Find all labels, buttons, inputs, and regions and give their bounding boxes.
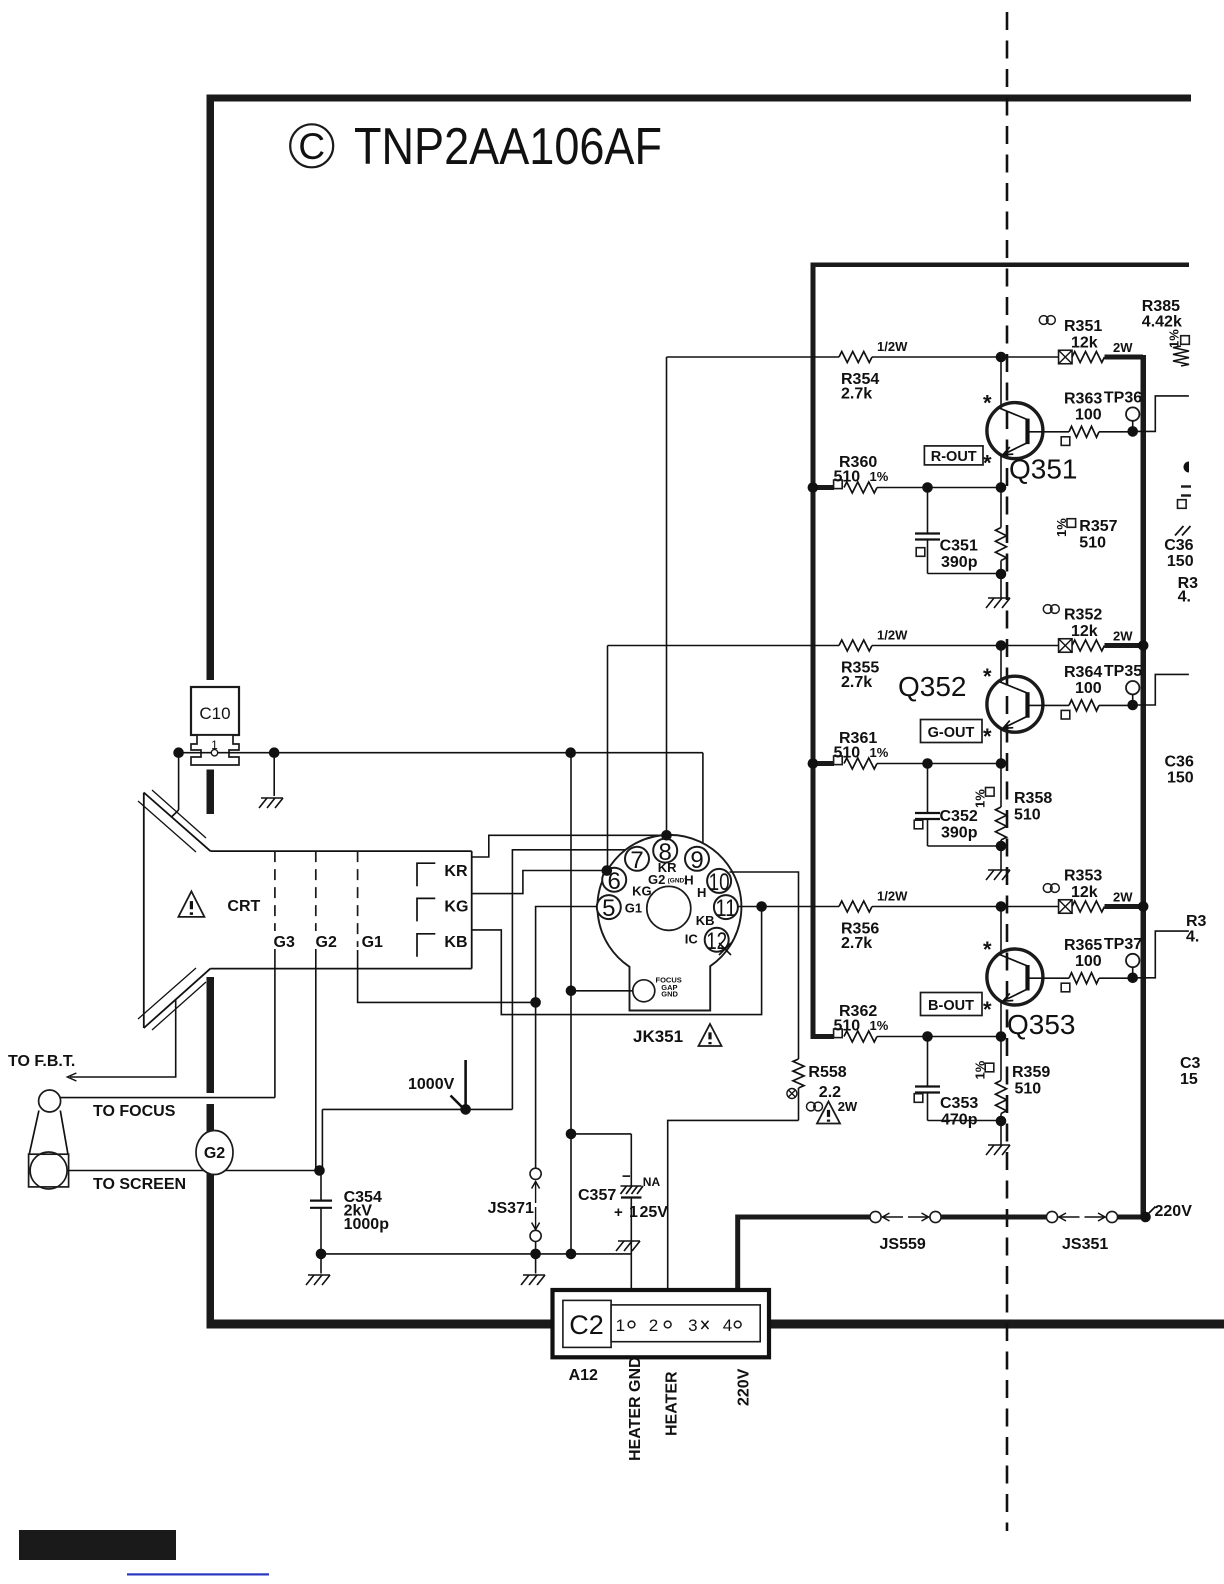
node R359 gnd — [996, 1116, 1007, 1127]
thick lead R352 to bus — [1105, 643, 1144, 648]
symbol nonflammable R558 — [807, 1102, 816, 1111]
CRT warning triangle — [178, 891, 204, 917]
node socket pin 8 (KR) — [661, 830, 672, 841]
svg-text:510: 510 — [1014, 807, 1041, 824]
wire base row — [1029, 431, 1070, 433]
svg-text:R351: R351 — [1064, 318, 1102, 335]
transistor Q353 collector lead — [1000, 907, 1002, 956]
node bus-R360 — [808, 482, 819, 493]
1000V arrow marker — [464, 1060, 467, 1106]
svg-text:3: 3 — [688, 1316, 697, 1335]
node fb-emitter — [996, 482, 1007, 493]
node socket pin 6 (KG) — [602, 865, 613, 876]
svg-text:G2: G2 — [204, 1145, 225, 1162]
svg-text:A12: A12 — [569, 1367, 598, 1384]
svg-text:10: 10 — [709, 869, 730, 896]
node heater-gnd column — [566, 1249, 577, 1260]
component square C353 — [914, 1094, 923, 1103]
thick stub bus to R361 — [811, 761, 835, 766]
svg-text:*: * — [983, 664, 992, 689]
capacitor plates — [915, 812, 940, 814]
socket pin 5 — [597, 895, 621, 919]
svg-text:100: 100 — [1075, 680, 1102, 697]
wire input row R354 — [667, 356, 840, 358]
thick lead R351 to bus — [1105, 355, 1144, 360]
svg-text:C10: C10 — [199, 704, 230, 723]
svg-text:G1: G1 — [362, 934, 383, 951]
svg-text:HEATER: HEATER — [664, 1371, 681, 1436]
partial resistor R385 vertical — [1173, 346, 1189, 366]
svg-text:2.7k: 2.7k — [841, 674, 872, 691]
label box B-OUT — [921, 993, 983, 1016]
test point TP36 — [1126, 407, 1139, 420]
svg-text:HEATER GND: HEATER GND — [627, 1356, 644, 1461]
label box G-OUT — [921, 720, 983, 743]
svg-text:R363: R363 — [1064, 391, 1102, 408]
capacitor C354 — [320, 1171, 322, 1201]
node bus-R353 join — [1138, 901, 1149, 912]
svg-text:510: 510 — [834, 1018, 861, 1035]
ground (C10) — [261, 797, 283, 799]
wire 1000V junction row — [322, 1108, 512, 1110]
capacitor plates — [915, 532, 940, 534]
ground (R357) — [1000, 574, 1002, 598]
connector C2 label box — [563, 1300, 611, 1347]
socket pin 6 — [602, 868, 626, 892]
resistor R353 crossed-box (fusible) — [1059, 900, 1073, 914]
connector C10 plug body — [191, 735, 239, 765]
grid G2 dashed electrode line — [315, 851, 317, 931]
svg-text:TO FOCUS: TO FOCUS — [93, 1103, 176, 1120]
svg-text:1: 1 — [616, 1316, 625, 1335]
ground (JS371) — [523, 1274, 545, 1276]
svg-text:1%: 1% — [870, 745, 889, 760]
socket pin 9 — [685, 847, 709, 871]
symbol nonflammable R353 — [1043, 884, 1052, 893]
wire feedback row — [834, 1036, 839, 1038]
svg-text:GND: GND — [661, 990, 678, 999]
svg-text:IC: IC — [685, 931, 699, 946]
ground (C357) — [618, 1240, 640, 1242]
svg-text:220V: 220V — [1155, 1203, 1193, 1220]
resistor R352 crossed-box (fusible) — [1059, 639, 1073, 653]
blue underline — [127, 1573, 269, 1575]
transistor Q351 emitter lead — [1000, 455, 1002, 488]
output-stage sub-circuit boundary box — [811, 263, 1190, 268]
svg-text:C36: C36 — [1164, 537, 1193, 554]
thick 220V bus (right) — [1141, 355, 1147, 1219]
svg-text:2.7k: 2.7k — [841, 935, 872, 952]
wire anode to FBT — [70, 999, 176, 1077]
wire to C357 — [571, 1133, 631, 1135]
CRT bell left face — [143, 793, 145, 1029]
test point TP35 — [1126, 681, 1139, 694]
node R358 gnd — [996, 841, 1007, 852]
node fb-emitter — [996, 1031, 1007, 1042]
svg-text:KG: KG — [632, 884, 652, 899]
wire pin5 G1 to JS371 — [536, 907, 597, 1169]
node C354 gnd — [316, 1249, 327, 1260]
node screen/G2/C354 junction — [314, 1165, 325, 1176]
svg-text:G3: G3 — [274, 934, 295, 951]
svg-text:5: 5 — [602, 895, 615, 922]
svg-text:150: 150 — [1167, 770, 1194, 787]
resistor R360 — [844, 482, 877, 493]
thick corner from left bus to R362 — [811, 1034, 835, 1039]
svg-text:510: 510 — [834, 469, 861, 486]
svg-text:470p: 470p — [941, 1112, 978, 1129]
ground (R358) — [1000, 846, 1002, 870]
svg-text:C357: C357 — [578, 1187, 616, 1204]
svg-text:C36: C36 — [1165, 754, 1194, 771]
svg-text:R-OUT: R-OUT — [931, 449, 977, 465]
CRT neck bottom edge — [210, 968, 471, 970]
jumper JS351 — [1046, 1211, 1057, 1222]
svg-text:2W: 2W — [838, 1099, 858, 1114]
svg-text:C353: C353 — [940, 1095, 978, 1112]
svg-text:H: H — [697, 885, 706, 900]
svg-text:C3: C3 — [1180, 1055, 1201, 1072]
svg-text:C352: C352 — [940, 808, 978, 825]
resistor R363 100 — [1069, 426, 1099, 437]
connector C2 outer box — [553, 1290, 770, 1357]
schematic page border (left), segments interrupted by C10 / CRT / wires — [207, 95, 215, 681]
svg-text:15: 15 — [1180, 1071, 1198, 1088]
wire base row — [1029, 977, 1070, 979]
node fb-cap — [922, 1031, 933, 1042]
wire test point to page edge — [1133, 396, 1189, 432]
svg-text:12k: 12k — [1071, 884, 1098, 901]
schematic page border (bottom) — [207, 1320, 553, 1329]
node input-collector — [996, 640, 1007, 651]
connector C2 pin area box — [611, 1305, 760, 1342]
jumper JS559 — [870, 1211, 881, 1222]
ground (C354) — [320, 1254, 322, 1274]
CRT bell bottom slant — [144, 969, 211, 1028]
svg-text:220V: 220V — [736, 1368, 753, 1406]
svg-text:510: 510 — [1079, 535, 1106, 552]
svg-text:TP37: TP37 — [1104, 936, 1142, 953]
node fb-cap — [922, 758, 933, 769]
svg-text:2W: 2W — [1113, 629, 1133, 644]
socket focus pin — [633, 980, 655, 1002]
pin 12 not-connected cross — [719, 943, 731, 955]
node socket pin 11 (KB) — [756, 901, 767, 912]
wire pin10 heater to R558 — [730, 872, 799, 1059]
wire KR electrode to socket pin 8 — [472, 835, 667, 857]
capacitor lead — [927, 488, 929, 534]
svg-text:*: * — [983, 724, 992, 749]
svg-text:Q352: Q352 — [898, 671, 967, 702]
svg-text:C2: C2 — [569, 1310, 604, 1340]
symbol nonflammable R351 — [1039, 316, 1048, 325]
ellipse G2 label on screen wire — [196, 1131, 233, 1175]
svg-text:11: 11 — [715, 895, 736, 922]
CRT bell top slant — [144, 793, 211, 852]
transistor Q351 — [987, 403, 1043, 459]
black redaction rectangle — [19, 1530, 176, 1560]
component square C351 — [916, 548, 925, 557]
svg-text:100: 100 — [1075, 953, 1102, 970]
transistor Q353 — [987, 949, 1043, 1005]
svg-text:TNP2AA106AF: TNP2AA106AF — [354, 118, 662, 176]
node bus-R352 join — [1138, 640, 1149, 651]
thick lead down to C2 pin 4 — [735, 1215, 740, 1320]
schematic page border (top) — [207, 95, 1192, 102]
svg-text:150: 150 — [1167, 553, 1194, 570]
resistor R352 12k — [1072, 640, 1105, 651]
thick 220V rail (bottom) — [737, 1215, 873, 1220]
node JS371 gnd — [530, 1249, 541, 1260]
socket pin 8 — [653, 839, 677, 863]
node 220V bus corner — [1140, 1212, 1151, 1223]
svg-text:Q351: Q351 — [1009, 454, 1078, 485]
svg-text:−: − — [622, 1168, 631, 1185]
svg-text:4.: 4. — [1178, 589, 1191, 606]
socket pin 12 — [705, 928, 729, 952]
wire pin6 up to R355 net — [607, 646, 609, 871]
svg-text:R353: R353 — [1064, 868, 1102, 885]
wire focus pin to ground line — [571, 990, 633, 992]
svg-text:TP36: TP36 — [1104, 390, 1142, 407]
component square R365 — [1061, 983, 1070, 992]
node C10 gnd stub — [269, 747, 280, 758]
svg-text:4.42k: 4.42k — [1142, 313, 1182, 330]
svg-text:12k: 12k — [1071, 335, 1098, 352]
svg-text:510: 510 — [834, 745, 861, 762]
svg-text:*: * — [983, 997, 992, 1022]
grid G3 dashed electrode line — [274, 851, 276, 931]
node fb-emitter — [996, 758, 1007, 769]
cathode KR electrode — [417, 863, 435, 886]
svg-text:1%: 1% — [870, 469, 889, 484]
CRT bell bottom slant hatching — [138, 968, 196, 1019]
resistor R351 12k — [1072, 352, 1105, 363]
wire test point to page edge — [1133, 931, 1189, 978]
test point TP37 — [1126, 954, 1139, 967]
svg-text:9: 9 — [690, 847, 703, 874]
svg-text:R558: R558 — [808, 1064, 846, 1081]
grid G1 dashed electrode line — [357, 851, 359, 947]
wire test point to page edge — [1133, 674, 1189, 705]
symbol nonflammable R352 — [1043, 605, 1052, 614]
ground (R359) — [1000, 1121, 1002, 1145]
node input-collector — [996, 901, 1007, 912]
copyright symbol — [290, 124, 333, 167]
svg-text:G1: G1 — [625, 901, 642, 916]
component square C352 — [914, 820, 923, 829]
jumper JS371 — [530, 1168, 541, 1179]
capacitor lead — [927, 1037, 929, 1087]
svg-text:R352: R352 — [1064, 607, 1102, 624]
wire down to socket shell — [702, 753, 704, 848]
svg-text:2W: 2W — [1113, 340, 1133, 355]
svg-text:JS371: JS371 — [488, 1200, 534, 1217]
svg-text:1000p: 1000p — [344, 1216, 390, 1233]
node bus-R361 — [808, 758, 819, 769]
node input-collector — [996, 352, 1007, 363]
svg-text:510: 510 — [1015, 1081, 1042, 1098]
component square R362 — [834, 1029, 843, 1038]
node anode-C10 — [173, 747, 184, 758]
resistor R558 2.2 2W — [793, 1059, 804, 1088]
svg-text:B-OUT: B-OUT — [928, 998, 974, 1014]
capacitor lead — [927, 764, 929, 814]
ground line x=571 down to heater gnd net — [570, 753, 572, 1254]
resistor R364 100 — [1069, 700, 1099, 711]
wire C10 ground bus — [179, 752, 212, 754]
svg-text:1/2W: 1/2W — [877, 889, 908, 904]
svg-text:1%: 1% — [1167, 329, 1182, 348]
symbol fusible R558 — [787, 1089, 797, 1099]
anode lead from C10 into bell — [178, 753, 180, 810]
CRT bell top slant hatching — [138, 801, 196, 852]
svg-text:390p: 390p — [941, 554, 978, 571]
wire ground row y=1254 — [321, 1253, 631, 1255]
wire input row R356 — [738, 906, 839, 908]
svg-text:TO SCREEN: TO SCREEN — [93, 1176, 186, 1193]
svg-text:R3: R3 — [1186, 913, 1207, 930]
svg-text:TO F.B.T.: TO F.B.T. — [8, 1053, 75, 1070]
220V tick — [1146, 1207, 1156, 1217]
resistor R351 crossed-box (fusible) — [1059, 350, 1073, 364]
wire G2 socket pin7 to screen net — [512, 850, 646, 1110]
svg-text:KG: KG — [444, 899, 468, 916]
CRT neck top edge — [210, 850, 471, 852]
svg-text:R358: R358 — [1014, 790, 1052, 807]
CRT neck right edge — [471, 851, 473, 969]
wire pin8 up to R354 — [666, 357, 668, 835]
capacitor plates — [915, 1085, 940, 1087]
resistor R353 12k — [1072, 901, 1105, 912]
svg-text:JK351: JK351 — [633, 1027, 683, 1046]
svg-text:100: 100 — [1075, 407, 1102, 424]
CRT socket JK351 outline — [597, 835, 741, 1011]
svg-text:1%: 1% — [870, 1018, 889, 1033]
wire R558 to C2 pin2 — [668, 1120, 799, 1322]
svg-text:TP35: TP35 — [1104, 663, 1142, 680]
svg-text:KB: KB — [444, 934, 467, 951]
socket pin 11 — [714, 895, 738, 919]
node R357 gnd — [996, 569, 1007, 580]
svg-text:12k: 12k — [1071, 623, 1098, 640]
svg-text:1/2W: 1/2W — [877, 628, 908, 643]
component square R361 — [834, 756, 843, 765]
svg-text:7: 7 — [630, 847, 643, 874]
cathode KG electrode — [417, 898, 435, 921]
svg-text:R365: R365 — [1064, 937, 1102, 954]
partial half-disc symbol — [1184, 462, 1190, 473]
resistor R354 2.7k — [839, 352, 872, 363]
svg-text:Q353: Q353 — [1007, 1009, 1076, 1040]
svg-text:JS351: JS351 — [1062, 1236, 1108, 1253]
socket pin 10 — [707, 869, 731, 893]
wire feedback row — [834, 763, 839, 765]
svg-text:390p: 390p — [941, 825, 978, 842]
wire TO SCREEN — [67, 1170, 316, 1172]
warning triangle at JK351 — [699, 1024, 722, 1046]
svg-text:G2: G2 — [316, 934, 337, 951]
svg-text:4: 4 — [723, 1316, 732, 1335]
svg-text:2.7k: 2.7k — [841, 386, 872, 403]
svg-text:*: * — [983, 937, 992, 962]
svg-text:1/2W: 1/2W — [877, 339, 908, 354]
svg-text:1: 1 — [629, 1204, 638, 1221]
svg-text:CRT: CRT — [227, 898, 260, 915]
label box R-OUT — [924, 446, 983, 465]
transistor Q352 — [987, 676, 1043, 732]
socket pin 7 — [625, 847, 649, 871]
svg-text:KB: KB — [696, 913, 715, 928]
resistor R355 2.7k — [839, 640, 872, 651]
arrow to F.B.T. — [67, 1073, 76, 1081]
thick lead R353 to bus — [1105, 904, 1144, 909]
wire TO FOCUS — [61, 1097, 275, 1099]
CRT socket center hole — [647, 886, 691, 930]
wire KB electrode to socket pin 11 — [472, 907, 762, 1015]
node C10 gnd line to focus net — [565, 747, 576, 758]
FBT focus/screen divider symbol — [39, 1090, 61, 1112]
svg-text:KR: KR — [444, 863, 468, 880]
G3 wire to focus — [274, 949, 276, 1098]
svg-text:JS559: JS559 — [880, 1236, 926, 1253]
transistor Q352 emitter lead — [1000, 728, 1002, 763]
svg-text:1000V: 1000V — [408, 1076, 455, 1093]
svg-text:*: * — [983, 391, 992, 416]
node focus-gnd — [566, 986, 577, 997]
resistor R361 — [844, 758, 877, 769]
svg-text:C: C — [298, 126, 325, 167]
capacitor C357 (polarized, hatched plate) — [621, 1186, 627, 1194]
svg-text:25V: 25V — [640, 1204, 669, 1221]
node G1 junction — [530, 997, 541, 1008]
svg-text:2W: 2W — [1113, 890, 1133, 905]
page divider dashed line — [1006, 12, 1009, 1531]
svg-text:2: 2 — [649, 1316, 658, 1335]
resistor R362 — [844, 1031, 877, 1042]
node fb-cap — [922, 482, 933, 493]
svg-text:R357: R357 — [1079, 518, 1117, 535]
connector C10 box — [191, 687, 239, 735]
wire input row R355 — [608, 645, 840, 647]
thick stub bus to R360 — [811, 485, 835, 490]
C10 pin — [211, 750, 217, 756]
svg-text:NA: NA — [643, 1175, 661, 1189]
transistor Q353 emitter lead — [1000, 1001, 1002, 1037]
warning triangle R558 — [817, 1102, 840, 1124]
resistor R359 510 vertical — [1000, 1037, 1002, 1081]
resistor R356 2.7k — [839, 901, 872, 912]
svg-text:4.: 4. — [1186, 929, 1199, 946]
transistor Q352 collector lead — [1000, 646, 1002, 683]
wire base row — [1029, 704, 1070, 706]
component square R363 — [1061, 437, 1070, 446]
partial capacitor plates — [1181, 485, 1191, 487]
resistor R358 510 vertical — [1000, 764, 1002, 808]
partial square — [1178, 500, 1187, 509]
svg-text:H: H — [684, 873, 693, 888]
G2 wire down to screen junction — [315, 949, 317, 1171]
node C357 top junction — [566, 1129, 577, 1140]
component square R364 — [1061, 710, 1070, 719]
svg-text:G-OUT: G-OUT — [928, 725, 975, 741]
wire KG electrode to socket pin 6 — [472, 871, 606, 894]
svg-text:C351: C351 — [940, 538, 978, 555]
svg-text:R364: R364 — [1064, 664, 1102, 681]
partial cap slashes — [1175, 526, 1184, 536]
G1 wire down and right to socket pin5 net — [358, 950, 536, 1002]
svg-text:*: * — [983, 451, 992, 476]
